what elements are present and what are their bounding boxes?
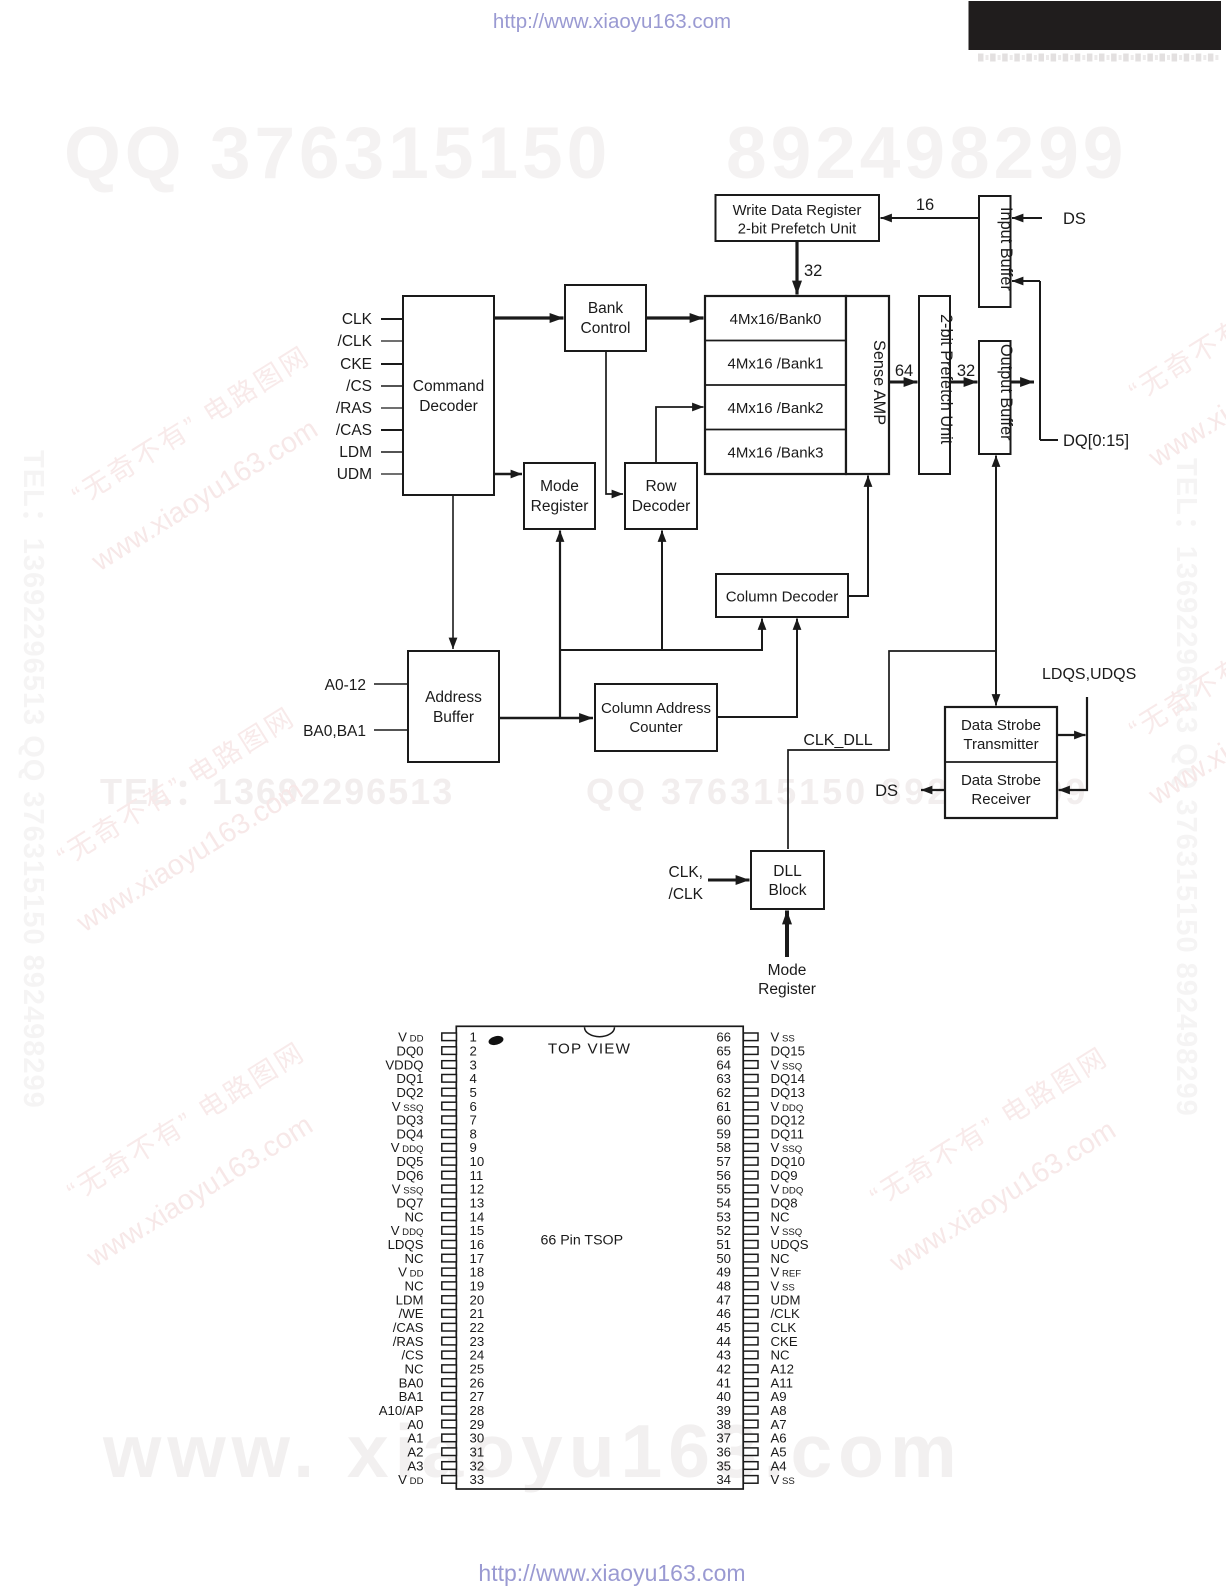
- svg-text:Control: Control: [581, 320, 631, 337]
- svg-text:BA0: BA0: [399, 1375, 424, 1390]
- watermark pink group 5 partial right: [1108, 236, 1226, 474]
- pin 54 right lead: [743, 1199, 758, 1207]
- svg-text:41: 41: [716, 1375, 731, 1390]
- svg-text:LDQS,UDQS: LDQS,UDQS: [1042, 666, 1136, 683]
- pin 65 right lead: [743, 1047, 758, 1055]
- svg-text:“无奇不有” 电路图网: “无奇不有” 电路图网: [1124, 236, 1226, 407]
- wire 2-bit prefetch to output buffer, 32: [950, 381, 978, 384]
- box input buffer: [979, 196, 1015, 307]
- package index notch: [585, 1027, 615, 1037]
- svg-text:DQ2: DQ2: [396, 1085, 423, 1100]
- svg-text:NC: NC: [771, 1348, 791, 1363]
- svg-text:DS: DS: [1063, 210, 1086, 228]
- svg-text:Address: Address: [425, 689, 482, 706]
- svg-text:16: 16: [470, 1237, 485, 1252]
- pin 26 left lead: [442, 1379, 457, 1387]
- svg-text:21: 21: [470, 1306, 485, 1321]
- svg-text:CLK: CLK: [771, 1320, 797, 1335]
- svg-text:Write Data Register: Write Data Register: [733, 203, 862, 219]
- wire CKE stub: [381, 363, 403, 365]
- svg-text:40: 40: [716, 1389, 731, 1404]
- svg-text:DQ1: DQ1: [396, 1071, 423, 1086]
- svg-text:A5: A5: [771, 1445, 787, 1460]
- pin 15 left lead: [442, 1227, 457, 1235]
- svg-text:65: 65: [716, 1043, 731, 1058]
- svg-text:UDM: UDM: [337, 466, 372, 483]
- svg-text:Decoder: Decoder: [632, 498, 691, 515]
- svg-text:DQ7: DQ7: [396, 1196, 423, 1211]
- box column address counter: [595, 684, 717, 751]
- wire ldqs vertical: [1059, 697, 1088, 790]
- pin 40 right lead: [743, 1393, 758, 1401]
- box 2-bit prefetch unit: [919, 296, 955, 474]
- svg-text:Mode: Mode: [540, 478, 579, 495]
- svg-text:CLK: CLK: [342, 311, 373, 328]
- svg-text:A9: A9: [771, 1389, 787, 1404]
- svg-text:DQ15: DQ15: [771, 1043, 805, 1058]
- wire BA0,BA1 stub: [374, 729, 408, 731]
- box output buffer: [979, 341, 1015, 454]
- svg-text:Column Address: Column Address: [601, 700, 711, 717]
- svg-text:/RAS: /RAS: [393, 1334, 424, 1349]
- svg-text:15: 15: [470, 1223, 485, 1238]
- pin 20 left lead: [442, 1296, 457, 1304]
- pin 29 left lead: [442, 1420, 457, 1428]
- svg-text:30: 30: [470, 1431, 485, 1446]
- svg-text:Buffer: Buffer: [433, 709, 474, 726]
- svg-text:NC: NC: [404, 1209, 424, 1224]
- pin 10 left lead: [442, 1158, 457, 1166]
- svg-text:DQ3: DQ3: [396, 1113, 423, 1128]
- svg-text:11: 11: [470, 1168, 484, 1183]
- svg-text:Decoder: Decoder: [419, 398, 478, 415]
- faint remnants under black box: [978, 54, 1218, 62]
- svg-text:DQ5: DQ5: [396, 1154, 423, 1169]
- svg-text:25: 25: [470, 1362, 485, 1377]
- svg-text:www. xiaoyu163.com: www. xiaoyu163.com: [102, 1409, 963, 1493]
- svg-text:Counter: Counter: [629, 719, 682, 736]
- pin 39 right lead: [743, 1406, 758, 1414]
- svg-text:/CAS: /CAS: [336, 422, 372, 439]
- pin 1 index dot: [488, 1034, 505, 1046]
- svg-text:CKE: CKE: [771, 1334, 798, 1349]
- svg-text:V SSQ: V SSQ: [771, 1140, 803, 1155]
- package outline 66 Pin TSOP: [456, 1026, 743, 1489]
- svg-text:2: 2: [470, 1043, 477, 1058]
- svg-text:44: 44: [716, 1334, 731, 1349]
- box command decoder: [403, 296, 494, 495]
- svg-text:V SSQ: V SSQ: [771, 1057, 803, 1072]
- svg-text:V SS: V SS: [771, 1279, 795, 1294]
- box memory banks: [705, 296, 846, 474]
- svg-text:BA0,BA1: BA0,BA1: [303, 723, 366, 740]
- svg-text:45: 45: [716, 1320, 731, 1335]
- wire /CAS stub: [381, 429, 403, 431]
- svg-text:A4: A4: [771, 1458, 787, 1473]
- svg-text:DQ6: DQ6: [396, 1168, 423, 1183]
- wire clk to dll block: [708, 879, 750, 882]
- svg-text:www.xiaoyu163.com: www.xiaoyu163.com: [80, 1109, 318, 1274]
- svg-text:Bank: Bank: [588, 300, 624, 317]
- pin 2 left lead: [442, 1047, 457, 1055]
- pin 19 left lead: [442, 1282, 457, 1290]
- svg-text:63: 63: [716, 1071, 731, 1086]
- box dll block: [751, 851, 824, 909]
- svg-text:37: 37: [716, 1431, 731, 1446]
- wire DS to input buffer: [1012, 217, 1042, 219]
- wire output buffer to data strobe (up arrow): [995, 456, 997, 652]
- svg-text:2-bit Prefetch Unit: 2-bit Prefetch Unit: [937, 314, 955, 445]
- watermark pink group 1: [51, 340, 351, 578]
- svg-text:NC: NC: [404, 1279, 424, 1294]
- svg-text:64: 64: [716, 1057, 731, 1072]
- pin 16 left lead: [442, 1241, 457, 1249]
- svg-text:48: 48: [716, 1279, 731, 1294]
- svg-text:35: 35: [716, 1458, 731, 1473]
- svg-text:DQ14: DQ14: [771, 1071, 805, 1086]
- box mode register: [524, 463, 595, 529]
- svg-text:1: 1: [470, 1030, 477, 1045]
- svg-text:DQ10: DQ10: [771, 1154, 805, 1169]
- svg-text:DQ9: DQ9: [771, 1168, 798, 1183]
- svg-text:VDDQ: VDDQ: [385, 1057, 423, 1072]
- pin 51 right lead: [743, 1241, 758, 1249]
- svg-text:V SSQ: V SSQ: [771, 1223, 803, 1238]
- pin 9 left lead: [442, 1144, 457, 1152]
- svg-text:66 Pin TSOP: 66 Pin TSOP: [541, 1233, 624, 1249]
- pin 56 right lead: [743, 1171, 758, 1179]
- svg-text:NC: NC: [771, 1209, 791, 1224]
- wire DQ bus to input buffer: [1012, 280, 1040, 282]
- svg-text:64: 64: [895, 362, 913, 380]
- pin 50 right lead: [743, 1254, 758, 1262]
- pin 21 left lead: [442, 1310, 457, 1318]
- svg-text:57: 57: [716, 1154, 731, 1169]
- svg-text:61: 61: [716, 1099, 731, 1114]
- wire write data register down to bank0, 32: [795, 241, 798, 295]
- svg-text:22: 22: [470, 1320, 485, 1335]
- box address buffer: [408, 651, 499, 762]
- svg-text:Data Strobe: Data Strobe: [961, 772, 1041, 789]
- pin 28 left lead: [442, 1406, 457, 1414]
- pin 14 left lead: [442, 1213, 457, 1221]
- svg-text:29: 29: [470, 1417, 485, 1432]
- svg-text:/CLK: /CLK: [338, 333, 373, 350]
- svg-text:58: 58: [716, 1140, 731, 1155]
- wire command decoder to bank control: [494, 316, 564, 319]
- svg-text:4Mx16 /Bank1: 4Mx16 /Bank1: [728, 356, 824, 373]
- pin 62 right lead: [743, 1088, 758, 1096]
- pin 45 right lead: [743, 1323, 758, 1331]
- svg-text:V DD: V DD: [398, 1030, 423, 1045]
- wire output buffer to data strobe (down arrow): [995, 651, 997, 706]
- pin 46 right lead: [743, 1310, 758, 1318]
- pin 30 left lead: [442, 1434, 457, 1442]
- svg-text:V DDQ: V DDQ: [771, 1182, 804, 1197]
- wire CLK stub: [381, 318, 403, 320]
- svg-text:23: 23: [470, 1334, 485, 1349]
- svg-text:UDQS: UDQS: [771, 1237, 809, 1252]
- wire mode register to dll block: [785, 911, 789, 958]
- svg-text:A0-12: A0-12: [325, 677, 366, 694]
- svg-text:54: 54: [716, 1196, 731, 1211]
- svg-text:8: 8: [470, 1126, 477, 1141]
- wire column address counter to column decoder: [717, 619, 797, 718]
- wire data strobe transmitter out: [1057, 734, 1086, 736]
- box sense amp: [846, 296, 889, 474]
- wire A0-12 stub: [374, 683, 408, 685]
- black header box: [969, 1, 1222, 50]
- svg-text:DQ13: DQ13: [771, 1085, 805, 1100]
- svg-text:5: 5: [470, 1085, 477, 1100]
- wire DS out of receiver: [921, 789, 945, 791]
- svg-text:DQ8: DQ8: [771, 1196, 798, 1211]
- wire UDM stub: [381, 473, 403, 475]
- box data strobe transmitter/receiver: [945, 707, 1057, 818]
- svg-text:Transmitter: Transmitter: [963, 736, 1038, 753]
- svg-text:LDM: LDM: [339, 444, 372, 461]
- svg-text:A10/AP: A10/AP: [379, 1403, 424, 1418]
- watermark QQ row top: [64, 113, 1127, 194]
- svg-text:TOP VIEW: TOP VIEW: [548, 1041, 631, 1058]
- wire command decoder down to address buffer: [452, 495, 454, 649]
- watermark pink group 3: [46, 1036, 346, 1274]
- svg-text:28: 28: [470, 1403, 485, 1418]
- svg-text:Row: Row: [645, 478, 677, 495]
- svg-text:62: 62: [716, 1085, 731, 1100]
- svg-text:http://www.xiaoyu163.com: http://www.xiaoyu163.com: [478, 1560, 745, 1586]
- svg-text:47: 47: [716, 1292, 731, 1307]
- pin 44 right lead: [743, 1337, 758, 1345]
- pin 17 left lead: [442, 1254, 457, 1262]
- pin 36 right lead: [743, 1448, 758, 1456]
- pin 61 right lead: [743, 1102, 758, 1110]
- svg-text:LDM: LDM: [396, 1292, 424, 1307]
- svg-text:Register: Register: [531, 498, 589, 515]
- wire /RAS stub: [381, 407, 403, 409]
- pin 33 left lead: [442, 1476, 457, 1484]
- pin 48 right lead: [743, 1282, 758, 1290]
- watermark pink group 2: [36, 701, 336, 939]
- wire address buffer to column address counter: [499, 717, 593, 720]
- wire riser to row decoder: [661, 531, 663, 651]
- svg-text:CLK,: CLK,: [669, 864, 703, 881]
- pin 24 left lead: [442, 1351, 457, 1359]
- svg-text:53: 53: [716, 1209, 731, 1224]
- svg-text:32: 32: [470, 1458, 485, 1473]
- svg-text:892498299: 892498299: [726, 113, 1127, 194]
- svg-text:A8: A8: [771, 1403, 787, 1418]
- pin 43 right lead: [743, 1351, 758, 1359]
- wire CLK_DLL from dll block: [788, 651, 996, 849]
- svg-text:DQ12: DQ12: [771, 1113, 805, 1128]
- svg-text:27: 27: [470, 1389, 485, 1404]
- svg-text:19: 19: [470, 1279, 485, 1294]
- watermark pink group 4: [849, 1041, 1149, 1279]
- svg-text:51: 51: [716, 1237, 731, 1252]
- pin 1 left lead: [442, 1033, 457, 1041]
- pin 55 right lead: [743, 1185, 758, 1193]
- svg-text:7: 7: [470, 1113, 477, 1128]
- pin 53 right lead: [743, 1213, 758, 1221]
- svg-text:UDM: UDM: [771, 1292, 801, 1307]
- svg-text:34: 34: [716, 1472, 731, 1487]
- svg-text:38: 38: [716, 1417, 731, 1432]
- svg-text:A11: A11: [771, 1375, 794, 1390]
- pin 25 left lead: [442, 1365, 457, 1373]
- wire column decoder to sense amp bottom: [848, 476, 868, 597]
- pin 41 right lead: [743, 1379, 758, 1387]
- pin 5 left lead: [442, 1088, 457, 1096]
- svg-text:4: 4: [470, 1071, 477, 1086]
- svg-text:V SSQ: V SSQ: [392, 1099, 424, 1114]
- svg-text:TEL：13692296513 QQ 376315150 8: TEL：13692296513 QQ 376315150 892498299: [17, 450, 49, 1109]
- svg-text:56: 56: [716, 1168, 731, 1183]
- pin 4 left lead: [442, 1075, 457, 1083]
- svg-text:4Mx16 /Bank2: 4Mx16 /Bank2: [728, 400, 824, 417]
- box write data register: [716, 195, 880, 241]
- svg-text:Data Strobe: Data Strobe: [961, 717, 1041, 734]
- box column decoder: [716, 574, 848, 617]
- pin 59 right lead: [743, 1130, 758, 1138]
- svg-text:V SSQ: V SSQ: [392, 1182, 424, 1197]
- svg-text:Input Buffer: Input Buffer: [997, 207, 1015, 291]
- svg-text:DQ[0:15]: DQ[0:15]: [1063, 432, 1129, 450]
- svg-text:Register: Register: [758, 981, 816, 998]
- pin 8 left lead: [442, 1130, 457, 1138]
- svg-text:66: 66: [716, 1030, 731, 1045]
- svg-text:DLL: DLL: [773, 863, 802, 880]
- pin 60 right lead: [743, 1116, 758, 1124]
- pin 42 right lead: [743, 1365, 758, 1373]
- svg-text:/CLK: /CLK: [771, 1306, 801, 1321]
- svg-text:DQ0: DQ0: [396, 1043, 423, 1058]
- wire riser to mode register: [559, 531, 561, 719]
- wire row decoder top to bank2: [656, 407, 704, 463]
- svg-text:CKE: CKE: [340, 356, 372, 373]
- svg-text:24: 24: [470, 1348, 485, 1363]
- svg-text:36: 36: [716, 1445, 731, 1460]
- svg-text:13: 13: [470, 1196, 485, 1211]
- svg-text:60: 60: [716, 1113, 731, 1128]
- svg-text:Output Buffer: Output Buffer: [997, 344, 1015, 441]
- pin 34 right lead: [743, 1476, 758, 1484]
- svg-text:/CS: /CS: [346, 378, 372, 395]
- svg-text:39: 39: [716, 1403, 731, 1418]
- pin 6 left lead: [442, 1102, 457, 1110]
- pin 7 left lead: [442, 1116, 457, 1124]
- svg-text:/CAS: /CAS: [393, 1320, 424, 1335]
- svg-text:Mode: Mode: [768, 962, 807, 979]
- watermark TEL QQ row middle: [100, 771, 1088, 812]
- svg-text:V SS: V SS: [771, 1030, 795, 1045]
- pin 27 left lead: [442, 1393, 457, 1401]
- svg-text:Receiver: Receiver: [971, 791, 1030, 808]
- pin 32 left lead: [442, 1462, 457, 1470]
- pin 11 left lead: [442, 1171, 457, 1179]
- svg-text:DQ4: DQ4: [396, 1126, 423, 1141]
- pin 57 right lead: [743, 1158, 758, 1166]
- svg-text:12: 12: [470, 1182, 485, 1197]
- pin 38 right lead: [743, 1420, 758, 1428]
- svg-text:V REF: V REF: [771, 1265, 802, 1280]
- box bank control: [565, 285, 646, 351]
- svg-text:9: 9: [470, 1140, 477, 1155]
- svg-text:16: 16: [916, 196, 934, 214]
- box row decoder: [625, 463, 697, 529]
- svg-text:Command: Command: [413, 378, 485, 395]
- svg-text:42: 42: [716, 1362, 731, 1377]
- svg-text:33: 33: [470, 1472, 485, 1487]
- svg-text:/RAS: /RAS: [336, 400, 372, 417]
- svg-text:43: 43: [716, 1348, 731, 1363]
- svg-text:A12: A12: [771, 1362, 794, 1377]
- svg-text:18: 18: [470, 1265, 485, 1280]
- wire DQ bus vertical: [1040, 281, 1058, 440]
- pin 49 right lead: [743, 1268, 758, 1276]
- svg-text:DQ11: DQ11: [771, 1126, 804, 1141]
- svg-text:14: 14: [470, 1209, 485, 1224]
- svg-text:Column Decoder: Column Decoder: [726, 589, 839, 606]
- pin 3 left lead: [442, 1061, 457, 1069]
- svg-text:Block: Block: [769, 882, 807, 899]
- pin 13 left lead: [442, 1199, 457, 1207]
- svg-text:A3: A3: [407, 1458, 423, 1473]
- wire /CLK stub: [381, 340, 403, 342]
- wire /CS stub: [381, 385, 403, 387]
- svg-text:V DDQ: V DDQ: [391, 1140, 424, 1155]
- svg-text:3: 3: [470, 1057, 477, 1072]
- wire command decoder to mode register: [494, 473, 522, 475]
- svg-text:A0: A0: [407, 1417, 423, 1432]
- svg-text:/WE: /WE: [399, 1306, 424, 1321]
- pin 64 right lead: [743, 1061, 758, 1069]
- pin 58 right lead: [743, 1144, 758, 1152]
- svg-text:6: 6: [470, 1099, 477, 1114]
- pin 37 right lead: [743, 1434, 758, 1442]
- pin 31 left lead: [442, 1448, 457, 1456]
- pin 18 left lead: [442, 1268, 457, 1276]
- svg-text:4Mx16/Bank0: 4Mx16/Bank0: [730, 311, 822, 328]
- pin 35 right lead: [743, 1462, 758, 1470]
- pin 47 right lead: [743, 1296, 758, 1304]
- pin 22 left lead: [442, 1323, 457, 1331]
- svg-text:NC: NC: [404, 1362, 424, 1377]
- svg-text:/CS: /CS: [402, 1348, 424, 1363]
- pin 12 left lead: [442, 1185, 457, 1193]
- svg-text:BA1: BA1: [399, 1389, 424, 1404]
- svg-text:http://www.xiaoyu163.com: http://www.xiaoyu163.com: [493, 10, 731, 33]
- wire input buffer to write data register, 16: [881, 217, 980, 219]
- svg-text:A1: A1: [407, 1431, 423, 1446]
- svg-text:CLK_DLL: CLK_DLL: [803, 732, 872, 749]
- svg-text:32: 32: [804, 262, 822, 280]
- pin 23 left lead: [442, 1337, 457, 1345]
- svg-text:A6: A6: [771, 1431, 787, 1446]
- pin 63 right lead: [743, 1075, 758, 1083]
- wire branch to column decoder (left): [560, 619, 762, 651]
- pin 66 right lead: [743, 1033, 758, 1041]
- svg-text:31: 31: [470, 1445, 485, 1460]
- svg-text:46: 46: [716, 1306, 731, 1321]
- pin 52 right lead: [743, 1227, 758, 1235]
- svg-text:www.xiaoyu163.com: www.xiaoyu163.com: [85, 413, 323, 578]
- svg-text:17: 17: [470, 1251, 485, 1266]
- svg-text:V DDQ: V DDQ: [391, 1223, 424, 1238]
- svg-text:NC: NC: [404, 1251, 424, 1266]
- svg-text:55: 55: [716, 1182, 731, 1197]
- svg-text:V DD: V DD: [398, 1265, 423, 1280]
